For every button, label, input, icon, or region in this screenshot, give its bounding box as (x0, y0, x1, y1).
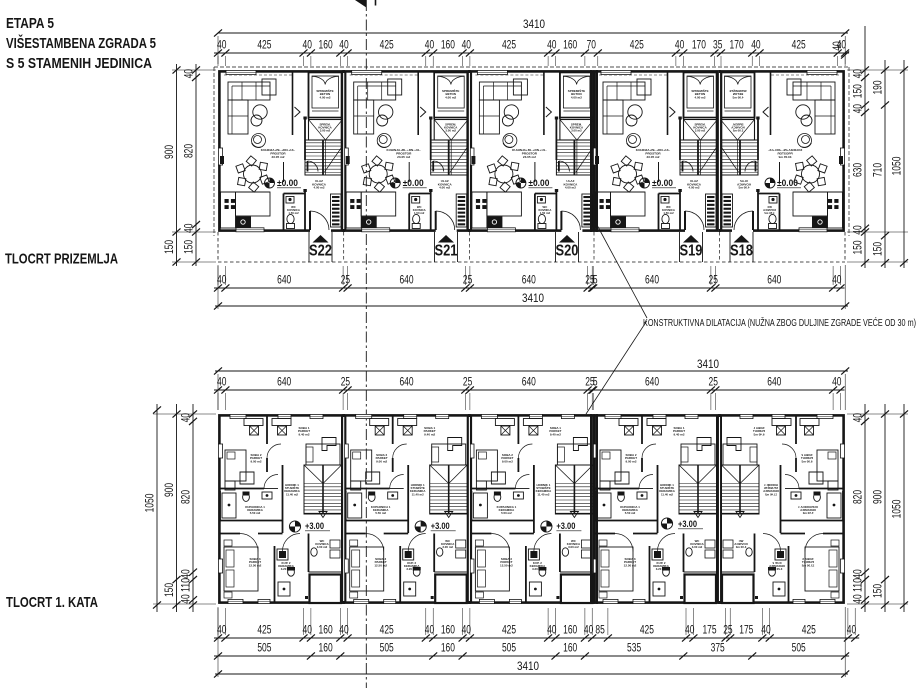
svg-text:425: 425 (502, 623, 516, 637)
svg-text:425: 425 (502, 38, 516, 52)
svg-text:640: 640 (277, 375, 291, 389)
svg-text:190: 190 (871, 80, 885, 94)
svg-text:40: 40 (832, 375, 842, 389)
svg-text:40: 40 (547, 38, 557, 52)
svg-text:160: 160 (441, 38, 455, 52)
unit S19 (593, 70, 717, 232)
svg-text:KONSTRUKTIVNA DILATACIJA (NUŽN: KONSTRUKTIVNA DILATACIJA (NUŽNA ZBOG DUL… (643, 316, 916, 329)
svg-text:5: 5 (593, 375, 598, 389)
svg-text:5: 5 (593, 273, 598, 287)
extension lines plan2 top (217, 393, 219, 410)
svg-text:900: 900 (871, 490, 885, 504)
bottom chain plan1 640s (214, 287, 845, 289)
svg-text:535: 535 (627, 641, 641, 655)
svg-text:40: 40 (217, 375, 227, 389)
svg-text:150: 150 (871, 584, 885, 598)
svg-text:110: 110 (851, 578, 865, 592)
svg-text:40: 40 (832, 273, 842, 287)
svg-text:160: 160 (563, 641, 577, 655)
svg-text:160: 160 (441, 623, 455, 637)
svg-text:40: 40 (425, 623, 435, 637)
entrance marker S18 (734, 235, 750, 243)
svg-text:85: 85 (595, 623, 605, 637)
party walls (342, 70, 345, 232)
svg-text:820: 820 (179, 490, 193, 504)
svg-text:25: 25 (463, 375, 473, 389)
svg-text:+3.00: +3.00 (556, 521, 575, 532)
eaves dashed line (214, 66, 849, 68)
svg-text:900: 900 (162, 483, 176, 497)
svg-text:S18: S18 (730, 243, 753, 260)
svg-text:160: 160 (441, 641, 455, 655)
svg-text:±0.00: ±0.00 (277, 178, 298, 189)
svg-text:±0.00: ±0.00 (777, 178, 798, 189)
svg-text:40: 40 (851, 225, 865, 235)
unit F4 (593, 414, 717, 603)
svg-text:40: 40 (851, 569, 865, 579)
party walls (342, 414, 345, 604)
plan2 top chain 640s (214, 389, 845, 391)
extension lines plan2 bottom (217, 608, 219, 635)
first floor plan (218, 414, 844, 604)
svg-text:1050: 1050 (143, 493, 157, 512)
svg-text:+3.00: +3.00 (678, 519, 697, 530)
svg-text:640: 640 (399, 273, 413, 287)
svg-text:25: 25 (341, 375, 351, 389)
entrance marker S20 (559, 235, 575, 243)
svg-text:640: 640 (522, 375, 536, 389)
plan2 overall 3410 bottom (215, 673, 848, 675)
svg-text:40: 40 (462, 38, 472, 52)
svg-text:170: 170 (730, 38, 744, 52)
svg-text:40: 40 (303, 623, 313, 637)
svg-text:40: 40 (685, 623, 695, 637)
north arrow (355, 0, 366, 8)
top dimension chain overall 3410 (218, 32, 848, 34)
svg-text:40: 40 (179, 569, 193, 579)
svg-text:25: 25 (723, 623, 733, 637)
svg-text:S22: S22 (309, 243, 332, 260)
right side dims plan1 (864, 26, 866, 268)
unit S21 (344, 70, 468, 232)
svg-text:3410: 3410 (522, 291, 544, 305)
svg-text:40: 40 (851, 594, 865, 604)
svg-text:160: 160 (319, 641, 333, 655)
svg-text:425: 425 (792, 38, 806, 52)
svg-text:150: 150 (182, 240, 196, 254)
svg-text:TLOCRT PRIZEMLJA: TLOCRT PRIZEMLJA (5, 251, 118, 268)
svg-text:150: 150 (162, 240, 176, 254)
svg-text:25: 25 (709, 273, 719, 287)
svg-text:505: 505 (502, 641, 516, 655)
left side dims plan1 (176, 64, 178, 266)
svg-text:±0.00: ±0.00 (652, 178, 673, 189)
svg-text:40: 40 (339, 38, 349, 52)
entrance walkway edges (308, 232, 310, 262)
svg-text:425: 425 (257, 623, 271, 637)
svg-text:40: 40 (851, 104, 865, 114)
svg-text:1050: 1050 (890, 156, 904, 175)
svg-text:ETAPA 5: ETAPA 5 (6, 15, 54, 32)
svg-text:40: 40 (217, 38, 227, 52)
svg-text:505: 505 (380, 641, 394, 655)
svg-text:820: 820 (182, 144, 196, 158)
svg-text:40: 40 (761, 623, 771, 637)
svg-text:150: 150 (851, 84, 865, 98)
svg-text:425: 425 (380, 38, 394, 52)
unit S18 mirrored (721, 70, 845, 232)
plan2 bottom chain 505s (214, 655, 849, 657)
svg-text:170: 170 (692, 38, 706, 52)
svg-text:150: 150 (871, 242, 885, 256)
svg-text:25: 25 (341, 273, 351, 287)
left side dims plan2 (156, 404, 158, 612)
dilatation leader lines (597, 225, 647, 318)
svg-text:630: 630 (851, 163, 865, 177)
entrance strip (218, 261, 845, 263)
svg-text:+3.00: +3.00 (431, 521, 450, 532)
svg-text:425: 425 (640, 623, 654, 637)
svg-text:110: 110 (179, 578, 193, 592)
svg-text:3410: 3410 (697, 357, 719, 371)
svg-text:40: 40 (182, 223, 196, 233)
plan2 bottom chain segments (214, 637, 859, 639)
svg-text:S19: S19 (680, 243, 703, 260)
svg-text:160: 160 (563, 38, 577, 52)
unit F1 (218, 414, 342, 603)
svg-text:3410: 3410 (523, 17, 545, 31)
svg-text:640: 640 (767, 375, 781, 389)
svg-text:900: 900 (162, 145, 176, 159)
svg-text:710: 710 (871, 163, 885, 177)
svg-text:1050: 1050 (890, 499, 904, 518)
svg-text:40: 40 (217, 273, 227, 287)
svg-text:35: 35 (713, 38, 723, 52)
svg-text:25: 25 (709, 375, 719, 389)
unit F3 (470, 414, 594, 603)
svg-text:TLOCRT 1. KATA: TLOCRT 1. KATA (6, 594, 98, 611)
unit F5 mirrored (721, 414, 845, 603)
svg-text:640: 640 (522, 273, 536, 287)
extension lines top chain (217, 56, 219, 66)
svg-text:40: 40 (847, 623, 857, 637)
svg-text:40: 40 (179, 594, 193, 604)
right side dims plan2 (864, 404, 866, 612)
svg-text:160: 160 (319, 623, 333, 637)
entrance marker S21 (438, 235, 454, 243)
svg-text:40: 40 (217, 623, 227, 637)
svg-text:640: 640 (645, 273, 659, 287)
svg-text:175: 175 (702, 623, 716, 637)
svg-text:425: 425 (380, 623, 394, 637)
svg-text:160: 160 (563, 623, 577, 637)
svg-text:425: 425 (257, 38, 271, 52)
svg-text:S20: S20 (556, 243, 579, 260)
svg-text:VIŠESTAMBENA ZGRADA 5: VIŠESTAMBENA ZGRADA 5 (6, 34, 156, 52)
unit F2 (344, 414, 468, 603)
svg-text:640: 640 (645, 375, 659, 389)
svg-text:±0.00: ±0.00 (528, 178, 549, 189)
svg-text:820: 820 (851, 490, 865, 504)
title block (6, 15, 156, 72)
svg-text:25: 25 (463, 273, 473, 287)
extension lines plan1 bottom (217, 266, 219, 285)
svg-text:640: 640 (767, 273, 781, 287)
svg-text:S 5 STAMENIH JEDINICA: S 5 STAMENIH JEDINICA (6, 55, 152, 72)
svg-text:640: 640 (277, 273, 291, 287)
entrance marker S19 (683, 235, 699, 243)
entrance marker S22 (313, 235, 329, 243)
unit S20 (470, 70, 594, 232)
svg-text:150: 150 (162, 583, 176, 597)
ground floor plan (214, 67, 849, 262)
svg-text:S21: S21 (435, 243, 458, 260)
svg-text:40: 40 (830, 41, 844, 51)
svg-text:40: 40 (751, 38, 761, 52)
svg-text:+3.00: +3.00 (305, 521, 324, 532)
svg-text:40: 40 (675, 38, 685, 52)
unit S22 (218, 70, 342, 232)
centerline (365, 0, 367, 688)
level labels first floor (289, 521, 300, 532)
svg-text:640: 640 (399, 375, 413, 389)
svg-text:505: 505 (792, 641, 806, 655)
svg-text:425: 425 (802, 623, 816, 637)
plan1 overall 3410 bottom (215, 305, 848, 307)
svg-text:40: 40 (547, 623, 557, 637)
svg-text:40: 40 (425, 38, 435, 52)
svg-text:375: 375 (711, 641, 725, 655)
svg-text:425: 425 (630, 38, 644, 52)
svg-text:175: 175 (739, 623, 753, 637)
svg-text:40: 40 (303, 38, 313, 52)
dilatation joint (590, 414, 592, 604)
svg-text:±0.00: ±0.00 (403, 178, 424, 189)
svg-text:70: 70 (587, 38, 597, 52)
top dimension chain segments (214, 52, 849, 54)
svg-text:3410: 3410 (517, 659, 539, 673)
svg-text:505: 505 (257, 641, 271, 655)
plan2 top overall 3410 (215, 370, 848, 372)
svg-text:150: 150 (851, 240, 865, 254)
level labels ground floor (265, 178, 275, 188)
svg-text:160: 160 (319, 38, 333, 52)
dilatation joint (590, 70, 592, 232)
